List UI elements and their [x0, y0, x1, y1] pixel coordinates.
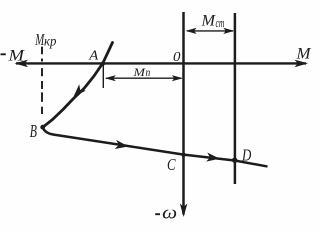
svg-text:M: M [7, 48, 26, 65]
svg-text:M: M [295, 46, 312, 63]
svg-text:D: D [241, 145, 252, 164]
svg-text:ст: ст [216, 16, 225, 30]
svg-text:п: п [146, 65, 151, 79]
svg-text:ω: ω [162, 203, 177, 224]
svg-text:M: M [132, 65, 146, 79]
svg-text:C: C [167, 155, 176, 174]
svg-text:кр: кр [44, 35, 56, 50]
svg-text:B: B [30, 121, 37, 141]
svg-text:0: 0 [173, 50, 181, 65]
svg-text:A: A [88, 48, 99, 63]
svg-text:M: M [200, 13, 216, 30]
